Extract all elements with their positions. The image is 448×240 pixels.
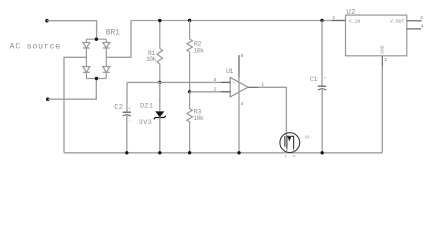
svg-text:U2: U2	[346, 9, 356, 17]
node C2 ground junction	[125, 151, 128, 154]
svg-text:2: 2	[384, 58, 387, 63]
zener diode DZ1	[154, 82, 166, 152]
wire sense node to op-amp	[190, 91, 231, 93]
svg-text:GND: GND	[379, 45, 385, 54]
svg-text:V_OUT: V_OUT	[390, 19, 405, 25]
resistor R2	[187, 21, 193, 92]
svg-text:C1: C1	[310, 76, 318, 83]
node bridge bottom junction	[95, 77, 98, 80]
svg-text:s: s	[285, 155, 287, 159]
wire C2 riser	[126, 82, 128, 112]
node U1 gnd junction	[237, 151, 240, 154]
wire ground bottom rail	[64, 152, 382, 154]
node C1 top rail junction	[320, 19, 323, 22]
wire DC+ top rail	[131, 20, 346, 22]
svg-text:d: d	[293, 154, 295, 159]
transistor Q1	[280, 133, 300, 159]
capacitor C1	[318, 21, 327, 153]
svg-text:2: 2	[420, 16, 423, 21]
node R3 ground junction	[188, 151, 191, 154]
wire AC1 to bridge top	[47, 21, 97, 40]
node bridge top junction	[95, 38, 98, 41]
wire bridge left tap to ground rail	[64, 57, 86, 153]
wire AC2 to bridge bottom	[48, 79, 97, 100]
svg-text:AC source: AC source	[10, 41, 61, 51]
bridge rectifier BR1	[83, 39, 110, 78]
node C1 ground junction	[321, 151, 324, 154]
node AC2 terminal	[46, 97, 50, 101]
svg-text:4: 4	[421, 25, 424, 30]
node R2 top rail junction	[188, 19, 191, 22]
svg-text:3V3: 3V3	[139, 119, 152, 127]
svg-text:2: 2	[214, 87, 217, 92]
voltage regulator U2	[332, 15, 422, 153]
svg-text:-: -	[128, 120, 131, 124]
svg-text:Q1: Q1	[305, 136, 310, 140]
svg-text:10k: 10k	[193, 47, 204, 54]
op-amp U1	[221, 55, 259, 153]
resistor R3	[187, 92, 193, 153]
capacitor C2	[123, 108, 132, 153]
node sense junction	[188, 90, 191, 93]
svg-text:~: ~	[158, 99, 161, 104]
svg-text:U1: U1	[226, 68, 233, 76]
svg-text:BR1: BR1	[106, 30, 120, 38]
svg-text:C2: C2	[114, 104, 123, 112]
svg-text:8: 8	[241, 54, 244, 59]
wire reference node to op-amp	[127, 81, 231, 83]
node DZ1 ground junction	[158, 151, 161, 154]
svg-text:10k: 10k	[193, 115, 204, 122]
svg-text:-: -	[232, 91, 234, 95]
svg-text:V_IN: V_IN	[349, 19, 361, 25]
svg-text:1: 1	[333, 16, 336, 21]
wire bridge right tap to DC rail	[106, 21, 131, 58]
node reference junction	[158, 81, 161, 84]
svg-text:DZ1: DZ1	[140, 103, 153, 111]
svg-text:10k: 10k	[146, 56, 157, 63]
wire U1 output to Q1 gate	[258, 87, 286, 136]
node AC1 terminal	[45, 19, 49, 23]
node R1 top rail junction	[158, 19, 161, 22]
svg-text:3: 3	[214, 78, 217, 83]
svg-text:4: 4	[241, 102, 244, 107]
resistor R1	[157, 21, 163, 83]
